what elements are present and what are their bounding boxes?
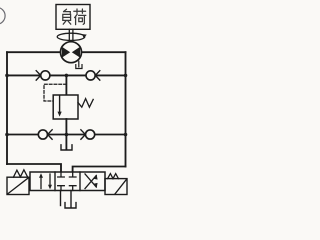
spring (right) [108,174,119,179]
wire: left rail vertical [6,52,8,164]
rotation ellipse around shaft [57,33,85,40]
solenoid Y1 (left) [7,177,29,194]
label 负 [63,9,71,24]
wire: motor right to right rail [81,51,125,53]
bottom tank [65,203,76,208]
middle tank [61,145,72,150]
relief valve flow arrow [59,95,61,112]
node J1 (upper middle junction) [65,74,69,78]
pilot line (dashed) to relief valve [44,84,66,101]
relief valve spring [78,99,93,108]
wire: lower bridge line [7,134,126,136]
node J5 (left rail lower) [5,133,9,137]
figure callout circle (cropped at left edge) [0,7,5,24]
position 3 crossed arrows [85,176,96,189]
valve port T line [70,191,72,208]
label 荷 [74,9,86,25]
check valve V1 (upper-left) [36,71,41,80]
wire: left rail to valve port A [7,164,61,172]
wire: upper bridge line [7,74,126,76]
node J4 (lower middle junction) [65,133,69,137]
hydraulic motor M [61,42,82,63]
node J2 (left rail upper) [5,74,9,78]
motor drain line [78,61,80,67]
solenoid Y2 (right) [105,179,127,195]
wire: right rail vertical [125,52,127,166]
load box 负荷 [56,5,90,30]
wire: right rail to valve port B [73,167,126,173]
rotation arrowhead [82,34,87,38]
check valve V2 (upper-right) [86,71,95,80]
directional valve V6 body [30,172,105,191]
valve port P stub [60,191,62,206]
wire: relief outlet [65,119,67,135]
position 2 blocked ports [58,172,65,177]
shaft (double line) from load to motor [68,29,70,42]
position 1 arrows [40,177,42,189]
node J6 (right rail lower) [124,133,128,137]
wire: motor left to left rail [7,51,61,53]
wire: relief inlet [65,75,67,95]
node J3 (right rail upper) [124,74,128,78]
check valve V3 (lower-left) [38,130,47,139]
wire: drain to middle tank [65,135,67,150]
motor drain tank [76,65,82,69]
relief valve V5 body [53,95,78,119]
spring (left) [13,170,27,177]
check valve V4 (lower-right) [81,130,86,139]
